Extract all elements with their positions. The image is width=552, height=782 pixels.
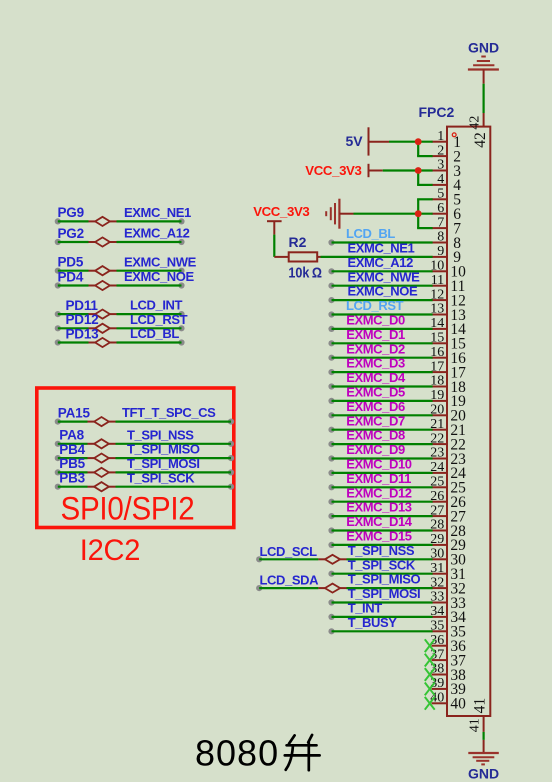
power port VCC_3V3 (R2) xyxy=(267,221,282,234)
svg-text:EXMC_NWE: EXMC_NWE xyxy=(348,269,421,284)
wire pin 25 net EXMC_D11 xyxy=(328,484,432,490)
wire pin 14 net EXMC_D0 xyxy=(328,326,432,332)
svg-text:EXMC_D10: EXMC_D10 xyxy=(346,457,412,472)
wire port PD12 xyxy=(55,325,185,331)
wire 5V to pin 1 xyxy=(389,141,433,143)
caption 8080 (parallel) xyxy=(195,732,320,773)
wire port PB5 xyxy=(55,469,234,475)
pin 36 xyxy=(430,633,466,655)
svg-text:EXMC_D13: EXMC_D13 xyxy=(346,500,412,515)
svg-text:EXMC_D3: EXMC_D3 xyxy=(346,356,405,371)
junction diamond T_SPI_MOSI xyxy=(94,468,109,477)
svg-text:EXMC_NOE: EXMC_NOE xyxy=(348,284,418,299)
junction diamond EXMC_NE1 xyxy=(95,217,110,226)
svg-text:VCC_3V3: VCC_3V3 xyxy=(305,163,361,178)
svg-text:TFT_T_SPC_CS: TFT_T_SPC_CS xyxy=(122,405,216,420)
svg-text:LCD_SDA: LCD_SDA xyxy=(260,573,320,588)
svg-text:10k Ω: 10k Ω xyxy=(288,263,322,280)
svg-text:2: 2 xyxy=(437,143,444,158)
svg-text:8080: 8080 xyxy=(195,732,279,773)
wire pin 31 net T_SPI_SCK xyxy=(328,571,432,577)
svg-text:EXMC_D1: EXMC_D1 xyxy=(346,327,405,342)
power port VCC_3V3 (pins 3-4) xyxy=(305,163,382,178)
svg-text:EXMC_NOE: EXMC_NOE xyxy=(124,269,194,284)
svg-text:5V: 5V xyxy=(346,133,364,149)
pin 39 xyxy=(430,676,466,698)
pin 2 xyxy=(432,143,461,165)
svg-text:EXMC_A12: EXMC_A12 xyxy=(348,255,414,270)
junction diamond T_SPI_MISO xyxy=(94,454,109,463)
power port 5V xyxy=(346,127,390,155)
wire pin 28 net EXMC_D14 xyxy=(328,527,432,533)
svg-text:EXMC_D4: EXMC_D4 xyxy=(346,370,406,385)
pin 1 xyxy=(432,129,461,151)
svg-text:LCD_INT: LCD_INT xyxy=(130,298,183,313)
wire port PD4 xyxy=(55,282,185,288)
svg-text:T_INT: T_INT xyxy=(348,601,383,616)
pin 1 polarity mark xyxy=(452,133,456,137)
pin 9 xyxy=(432,244,462,266)
wire pin 34 net T_INT xyxy=(328,614,432,620)
junction diamond LCD_BL xyxy=(95,338,110,347)
pin 17 xyxy=(430,359,466,381)
svg-text:SPI0/SPI2: SPI0/SPI2 xyxy=(61,490,195,527)
power port GND (top) xyxy=(468,39,499,83)
wire pin 41 to GND xyxy=(483,732,485,740)
pin 27 xyxy=(430,503,466,525)
svg-text:11: 11 xyxy=(431,273,444,288)
svg-text:EXMC_NWE: EXMC_NWE xyxy=(124,254,197,269)
svg-text:40: 40 xyxy=(450,696,466,713)
pin 5 xyxy=(432,187,462,209)
pin 24 xyxy=(430,460,466,482)
svg-text:1: 1 xyxy=(437,129,444,144)
svg-text:EXMC_NE1: EXMC_NE1 xyxy=(124,205,191,220)
wire pin 26 net EXMC_D12 xyxy=(328,499,432,505)
svg-text:8: 8 xyxy=(437,230,444,245)
svg-text:PG2: PG2 xyxy=(58,226,84,241)
svg-text:PA8: PA8 xyxy=(59,428,84,443)
wire pin 13 net LCD_RST xyxy=(328,311,432,317)
wire port PA8 xyxy=(55,441,234,447)
svg-text:EXMC_D2: EXMC_D2 xyxy=(346,341,405,356)
wire port PB3 xyxy=(55,484,234,490)
wire pin 23 net EXMC_D9 xyxy=(328,455,432,461)
wire port PG2 xyxy=(55,239,185,245)
junction diamond LCD_SDA xyxy=(325,584,340,593)
wire pin 29 net EXMC_D15 xyxy=(328,542,432,548)
svg-text:LCD_SCL: LCD_SCL xyxy=(260,544,318,559)
pin 15 xyxy=(430,331,466,353)
svg-text:EXMC_NE1: EXMC_NE1 xyxy=(348,241,415,256)
wire pin 12 net EXMC_NOE xyxy=(328,297,432,303)
wire pin 20 net EXMC_D6 xyxy=(328,412,432,418)
svg-text:PD11: PD11 xyxy=(66,298,99,313)
wire port PB4 xyxy=(55,455,234,461)
pin 42 xyxy=(468,113,489,148)
wire VCC_3V3 to pin 3 xyxy=(383,169,433,171)
pin 25 xyxy=(430,475,466,497)
svg-text:EXMC_A12: EXMC_A12 xyxy=(124,226,190,241)
pin 29 xyxy=(430,532,466,554)
pin 40 xyxy=(430,691,466,713)
wire port PG9 xyxy=(55,218,185,224)
wire pin 19 net EXMC_D5 xyxy=(328,398,432,404)
no-connect X pin 37 xyxy=(425,654,435,667)
wire pin 17 net EXMC_D3 xyxy=(328,369,432,375)
no-connect X pin 38 xyxy=(425,668,435,681)
wire pin 21 net EXMC_D7 xyxy=(328,427,432,433)
wire pin 35 net T_BUSY xyxy=(328,628,432,634)
junction diamond EXMC_A12 xyxy=(95,237,110,246)
resistor R2 xyxy=(274,234,322,281)
pin 16 xyxy=(430,345,466,367)
wire pin 27 net EXMC_D13 xyxy=(328,513,432,519)
wire port PD5 xyxy=(55,268,185,274)
junction pin 1 xyxy=(415,138,422,145)
svg-text:42: 42 xyxy=(468,116,483,130)
pin 30 xyxy=(430,547,466,569)
svg-text:PD5: PD5 xyxy=(58,255,84,270)
svg-text:PD12: PD12 xyxy=(66,312,99,327)
wire VCC_3V3 to R2 xyxy=(273,235,275,257)
svg-text:PD13: PD13 xyxy=(66,326,100,341)
pin 38 xyxy=(430,662,466,684)
svg-text:EXMC_D12: EXMC_D12 xyxy=(346,485,412,500)
svg-text:T_SPI_MISO: T_SPI_MISO xyxy=(127,442,200,457)
power port VCC_3V3 (pins 5-7) xyxy=(253,199,353,229)
svg-text:T_SPI_MOSI: T_SPI_MOSI xyxy=(127,456,200,471)
wire pin 11 net EXMC_NWE xyxy=(328,283,432,289)
pin 6 xyxy=(432,201,462,223)
wire pin 10 net EXMC_A12 xyxy=(328,268,432,274)
svg-text:FPC2: FPC2 xyxy=(419,104,455,120)
svg-text:7: 7 xyxy=(437,215,444,230)
junction diamond LCD_RST xyxy=(95,324,110,333)
wire pin 33 net T_SPI_MOSI xyxy=(328,599,432,605)
svg-text:42: 42 xyxy=(472,132,489,148)
wire VCC_3V3 to pin 6 xyxy=(354,213,433,215)
wire pin 18 net EXMC_D4 xyxy=(328,383,432,389)
pin 33 xyxy=(430,590,466,612)
no-connect X pin 40 xyxy=(425,697,435,710)
svg-text:PD4: PD4 xyxy=(58,269,84,284)
pin 19 xyxy=(430,388,466,410)
svg-text:GND: GND xyxy=(468,39,499,55)
junction pin 6 xyxy=(415,210,422,217)
svg-text:LCD_BL: LCD_BL xyxy=(346,226,395,241)
pin 8 xyxy=(432,230,462,252)
svg-text:5: 5 xyxy=(437,187,444,202)
power port GND (bottom) xyxy=(468,740,499,781)
pin 13 xyxy=(430,302,466,324)
wire pin 15 net EXMC_D1 xyxy=(328,340,432,346)
svg-text:EXMC_D6: EXMC_D6 xyxy=(346,399,405,414)
svg-text:LCD_RST: LCD_RST xyxy=(130,312,188,327)
pin 11 xyxy=(431,273,466,295)
svg-text:EXMC_D8: EXMC_D8 xyxy=(346,428,405,443)
wire pin 24 net EXMC_D10 xyxy=(328,470,432,476)
pin 23 xyxy=(430,446,466,468)
wire GND to pin 42 xyxy=(483,84,485,113)
pin 34 xyxy=(430,604,466,626)
pin 12 xyxy=(430,287,466,309)
pin 7 xyxy=(432,215,462,237)
svg-text:PG9: PG9 xyxy=(58,205,84,220)
svg-text:6: 6 xyxy=(437,201,444,216)
svg-text:EXMC_D5: EXMC_D5 xyxy=(346,385,405,400)
pin 18 xyxy=(430,374,466,396)
pin 32 xyxy=(430,575,466,597)
svg-text:T_SPI_NSS: T_SPI_NSS xyxy=(127,427,194,442)
wire port PD11 xyxy=(55,311,185,317)
svg-text:T_SPI_MISO: T_SPI_MISO xyxy=(348,572,421,587)
pin 41 xyxy=(468,698,489,732)
junction diamond LCD_INT xyxy=(95,310,110,319)
junction diamond LCD_SCL xyxy=(325,555,340,564)
svg-text:3: 3 xyxy=(437,158,444,173)
svg-text:PA15: PA15 xyxy=(58,405,91,420)
junction diamond T_SPI_SCK xyxy=(94,482,109,491)
svg-text:T_SPI_NSS: T_SPI_NSS xyxy=(348,543,415,558)
svg-text:EXMC_D14: EXMC_D14 xyxy=(346,514,413,529)
svg-text:LCD_RST: LCD_RST xyxy=(346,298,404,313)
svg-text:T_BUSY: T_BUSY xyxy=(348,615,398,630)
group box SPI0/SPI2 xyxy=(37,388,234,528)
junction pin 3 xyxy=(415,167,422,174)
svg-text:T_SPI_SCK: T_SPI_SCK xyxy=(127,470,195,485)
wire branch to pin 2 xyxy=(417,142,419,156)
no-connect X pin 36 xyxy=(425,639,435,652)
pin 31 xyxy=(430,561,466,583)
wire branch pins 5 and 7 xyxy=(417,199,419,228)
pin 10 xyxy=(430,259,466,281)
svg-text:EXMC_D11: EXMC_D11 xyxy=(346,471,411,486)
wire port PA15 xyxy=(55,419,234,425)
svg-text:41: 41 xyxy=(468,718,483,732)
wire pin 16 net EXMC_D2 xyxy=(328,355,432,361)
pin 28 xyxy=(430,518,466,540)
pin 20 xyxy=(430,403,466,425)
connector FPC2 body xyxy=(447,127,490,716)
svg-text:LCD_BL: LCD_BL xyxy=(130,326,179,341)
wire port PD13 xyxy=(55,339,185,345)
svg-text:EXMC_D9: EXMC_D9 xyxy=(346,442,405,457)
junction diamond EXMC_NWE xyxy=(95,266,110,275)
wire LCD_SCL to pin 30 xyxy=(256,556,433,562)
junction diamond TFT_T_SPC_CS xyxy=(94,417,109,426)
svg-text:4: 4 xyxy=(437,172,444,187)
svg-text:EXMC_D7: EXMC_D7 xyxy=(346,413,405,428)
svg-text:EXMC_D15: EXMC_D15 xyxy=(346,529,412,544)
pin 3 xyxy=(432,158,462,180)
svg-text:9: 9 xyxy=(437,244,444,259)
wire pin 8 net LCD_BL xyxy=(328,239,432,245)
junction diamond T_SPI_NSS xyxy=(94,439,109,448)
wire R2 to pin 9 xyxy=(321,256,433,258)
wire pin 22 net EXMC_D8 xyxy=(328,441,432,447)
svg-text:PB3: PB3 xyxy=(59,471,85,486)
svg-text:PB4: PB4 xyxy=(59,442,85,457)
pin 26 xyxy=(430,489,466,511)
svg-text:VCC_3V3: VCC_3V3 xyxy=(253,204,309,219)
pin 21 xyxy=(430,417,466,439)
pin 14 xyxy=(430,316,466,338)
pin 37 xyxy=(430,647,466,669)
no-connect X pin 39 xyxy=(425,683,435,696)
svg-text:PB5: PB5 xyxy=(59,456,85,471)
pin 4 xyxy=(432,172,462,194)
svg-text:GND: GND xyxy=(468,765,499,781)
svg-text:36: 36 xyxy=(430,633,444,648)
wire branch to pin 4 xyxy=(417,171,419,185)
pin 35 xyxy=(430,619,466,641)
wire LCD_SDA to pin 32 xyxy=(256,585,433,591)
pin 22 xyxy=(430,431,466,453)
svg-text:EXMC_D0: EXMC_D0 xyxy=(346,313,405,328)
junction diamond EXMC_NOE xyxy=(95,281,110,290)
svg-text:41: 41 xyxy=(471,698,488,714)
svg-text:I2C2: I2C2 xyxy=(80,533,140,566)
svg-text:R2: R2 xyxy=(289,234,307,250)
